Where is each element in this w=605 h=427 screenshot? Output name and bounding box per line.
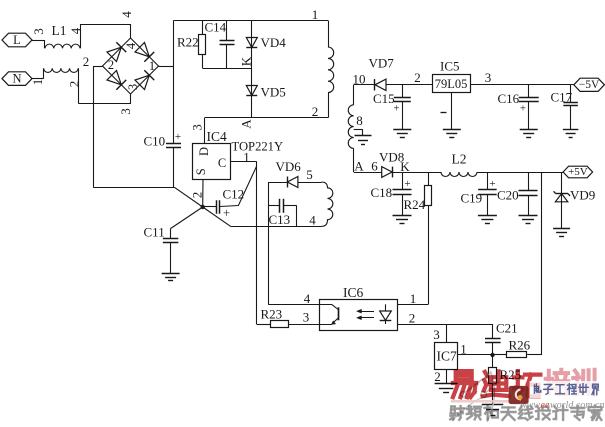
svg-text:8: 8 (356, 113, 363, 128)
svg-text:IC7: IC7 (437, 349, 458, 364)
svg-text:R22: R22 (177, 35, 199, 50)
svg-text:C14: C14 (205, 20, 227, 35)
svg-text:2: 2 (414, 70, 421, 85)
svg-text:C13: C13 (269, 212, 291, 227)
svg-text:IC4: IC4 (207, 129, 228, 144)
svg-text:C10: C10 (144, 134, 166, 149)
svg-text:1: 1 (312, 7, 319, 22)
svg-text:C18: C18 (371, 185, 393, 200)
svg-text:VD7: VD7 (369, 56, 395, 71)
svg-text:S: S (194, 168, 208, 175)
svg-text:C16: C16 (498, 91, 520, 106)
svg-text:1: 1 (460, 342, 467, 357)
svg-text:+: + (175, 131, 181, 143)
svg-text:2: 2 (409, 311, 416, 326)
svg-text:+5V: +5V (568, 166, 588, 178)
svg-text:+: + (223, 206, 230, 220)
svg-text:www.: www. (520, 400, 542, 411)
svg-text:2: 2 (312, 104, 319, 119)
svg-text:A: A (238, 119, 253, 129)
svg-text:R23: R23 (261, 307, 283, 322)
svg-text:79L05: 79L05 (435, 77, 468, 91)
svg-text:TOP221Y: TOP221Y (232, 140, 284, 154)
svg-text:1: 1 (30, 79, 45, 86)
svg-text:C: C (218, 156, 226, 170)
svg-text:+: + (489, 178, 495, 190)
svg-text:+: + (404, 178, 410, 190)
svg-text:4: 4 (304, 291, 311, 306)
svg-text:R24: R24 (404, 197, 426, 212)
svg-text:4: 4 (124, 42, 138, 49)
svg-text:R26: R26 (509, 338, 531, 353)
svg-text:4: 4 (309, 213, 316, 228)
svg-text:4: 4 (119, 11, 134, 18)
svg-text:C12: C12 (223, 187, 245, 202)
svg-text:ee: ee (541, 400, 550, 411)
svg-text:3: 3 (31, 28, 46, 35)
svg-text:2: 2 (108, 58, 114, 72)
svg-text:3: 3 (126, 84, 140, 90)
svg-text:VD4: VD4 (261, 35, 287, 50)
svg-text:L: L (13, 33, 21, 47)
svg-text:L1: L1 (52, 23, 67, 38)
svg-text:L2: L2 (452, 152, 467, 167)
svg-text:2: 2 (83, 54, 90, 69)
svg-text:K: K (400, 159, 410, 174)
svg-text:1: 1 (410, 291, 417, 306)
svg-text:2: 2 (189, 192, 204, 199)
svg-text:IC6: IC6 (343, 285, 364, 300)
svg-text:VD6: VD6 (276, 159, 302, 174)
svg-text:VD9: VD9 (570, 188, 595, 203)
svg-text:2: 2 (434, 369, 441, 384)
svg-text:D: D (197, 147, 211, 156)
svg-text:−5V: −5V (579, 79, 600, 91)
svg-text:C17: C17 (551, 90, 573, 105)
svg-text:3: 3 (303, 310, 310, 325)
svg-text:3: 3 (118, 108, 133, 115)
svg-text:C19: C19 (461, 191, 483, 206)
svg-text:C15: C15 (373, 91, 395, 106)
svg-text:K: K (238, 56, 253, 66)
svg-text:1: 1 (149, 59, 155, 73)
svg-text:1: 1 (243, 149, 250, 164)
svg-text:IC5: IC5 (440, 59, 460, 74)
svg-text:3: 3 (485, 70, 492, 85)
svg-text:C20: C20 (497, 188, 519, 203)
svg-text:VD5: VD5 (261, 85, 286, 100)
svg-text:N: N (12, 71, 21, 85)
svg-text:C11: C11 (144, 225, 165, 240)
svg-text:2: 2 (66, 81, 81, 88)
svg-text:world.com.cn: world.com.cn (550, 400, 604, 411)
svg-text:6: 6 (371, 158, 378, 173)
svg-text:5: 5 (306, 167, 313, 182)
svg-text:+: + (520, 103, 526, 115)
svg-text:A: A (354, 159, 364, 174)
svg-text:3: 3 (190, 124, 205, 131)
svg-text:3: 3 (433, 327, 440, 342)
svg-text:4: 4 (68, 27, 83, 34)
svg-text:C21: C21 (496, 321, 518, 336)
